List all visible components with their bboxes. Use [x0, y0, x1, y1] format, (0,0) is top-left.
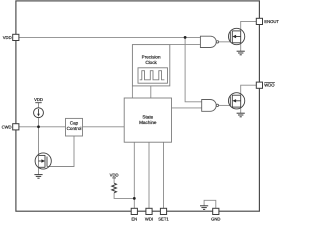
svg-text:ENOUT: ENOUT — [264, 19, 279, 24]
svg-text:CWD: CWD — [2, 124, 12, 129]
svg-text:EN: EN — [131, 216, 137, 221]
svg-text:Machine: Machine — [139, 120, 157, 125]
svg-text:SET1: SET1 — [158, 216, 169, 221]
svg-text:WDO: WDO — [264, 83, 275, 88]
svg-text:VDD: VDD — [110, 172, 119, 177]
svg-text:State: State — [142, 114, 153, 119]
svg-text:WDI: WDI — [145, 216, 153, 221]
svg-text:Cap: Cap — [70, 121, 79, 126]
svg-text:GND: GND — [211, 216, 220, 221]
svg-text:VDD: VDD — [3, 35, 12, 40]
svg-text:Precision: Precision — [142, 54, 161, 59]
svg-text:VDD: VDD — [34, 97, 43, 102]
svg-text:Control: Control — [67, 126, 82, 131]
svg-text:Clock: Clock — [145, 60, 157, 65]
